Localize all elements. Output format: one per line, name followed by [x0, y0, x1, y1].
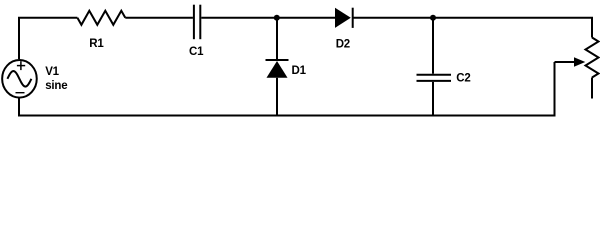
svg-text:V1: V1 — [45, 66, 59, 78]
potentiometer wiper arrow — [555, 57, 586, 66]
source V1 minus sign — [16, 92, 25, 94]
svg-text:C2: C2 — [456, 73, 470, 85]
diode D1 — [266, 60, 289, 78]
svg-text:D1: D1 — [292, 65, 307, 77]
wire potentiometer bottom lead — [591, 78, 593, 99]
wire C2 bottom lead — [432, 82, 434, 116]
wire R1 to C1 — [125, 17, 193, 19]
source V1 plus sign — [17, 61, 25, 70]
svg-text:sine: sine — [45, 80, 67, 92]
node A junction dot — [274, 15, 280, 21]
wire C1 to D2 — [201, 17, 335, 19]
svg-text:D2: D2 — [336, 39, 350, 51]
wire D2 to top-right corner — [353, 18, 592, 38]
diode D2 — [335, 8, 353, 28]
source V1 circle — [2, 60, 37, 98]
node B junction dot — [430, 15, 436, 21]
wire wiper down, bottom rail, source bottom lead — [19, 62, 555, 116]
resistor R1 — [77, 11, 125, 25]
capacitor C2 — [417, 75, 452, 81]
svg-text:C1: C1 — [189, 46, 204, 58]
capacitor C1 — [194, 5, 200, 40]
wire source top lead to R1 — [19, 18, 77, 59]
potentiometer R2 body — [586, 38, 599, 78]
source V1 sine symbol — [7, 71, 31, 87]
wire D1 top lead — [276, 18, 278, 60]
svg-text:R1: R1 — [89, 38, 104, 50]
wire C2 top lead — [432, 18, 434, 74]
wire D1 bottom lead — [276, 78, 278, 116]
